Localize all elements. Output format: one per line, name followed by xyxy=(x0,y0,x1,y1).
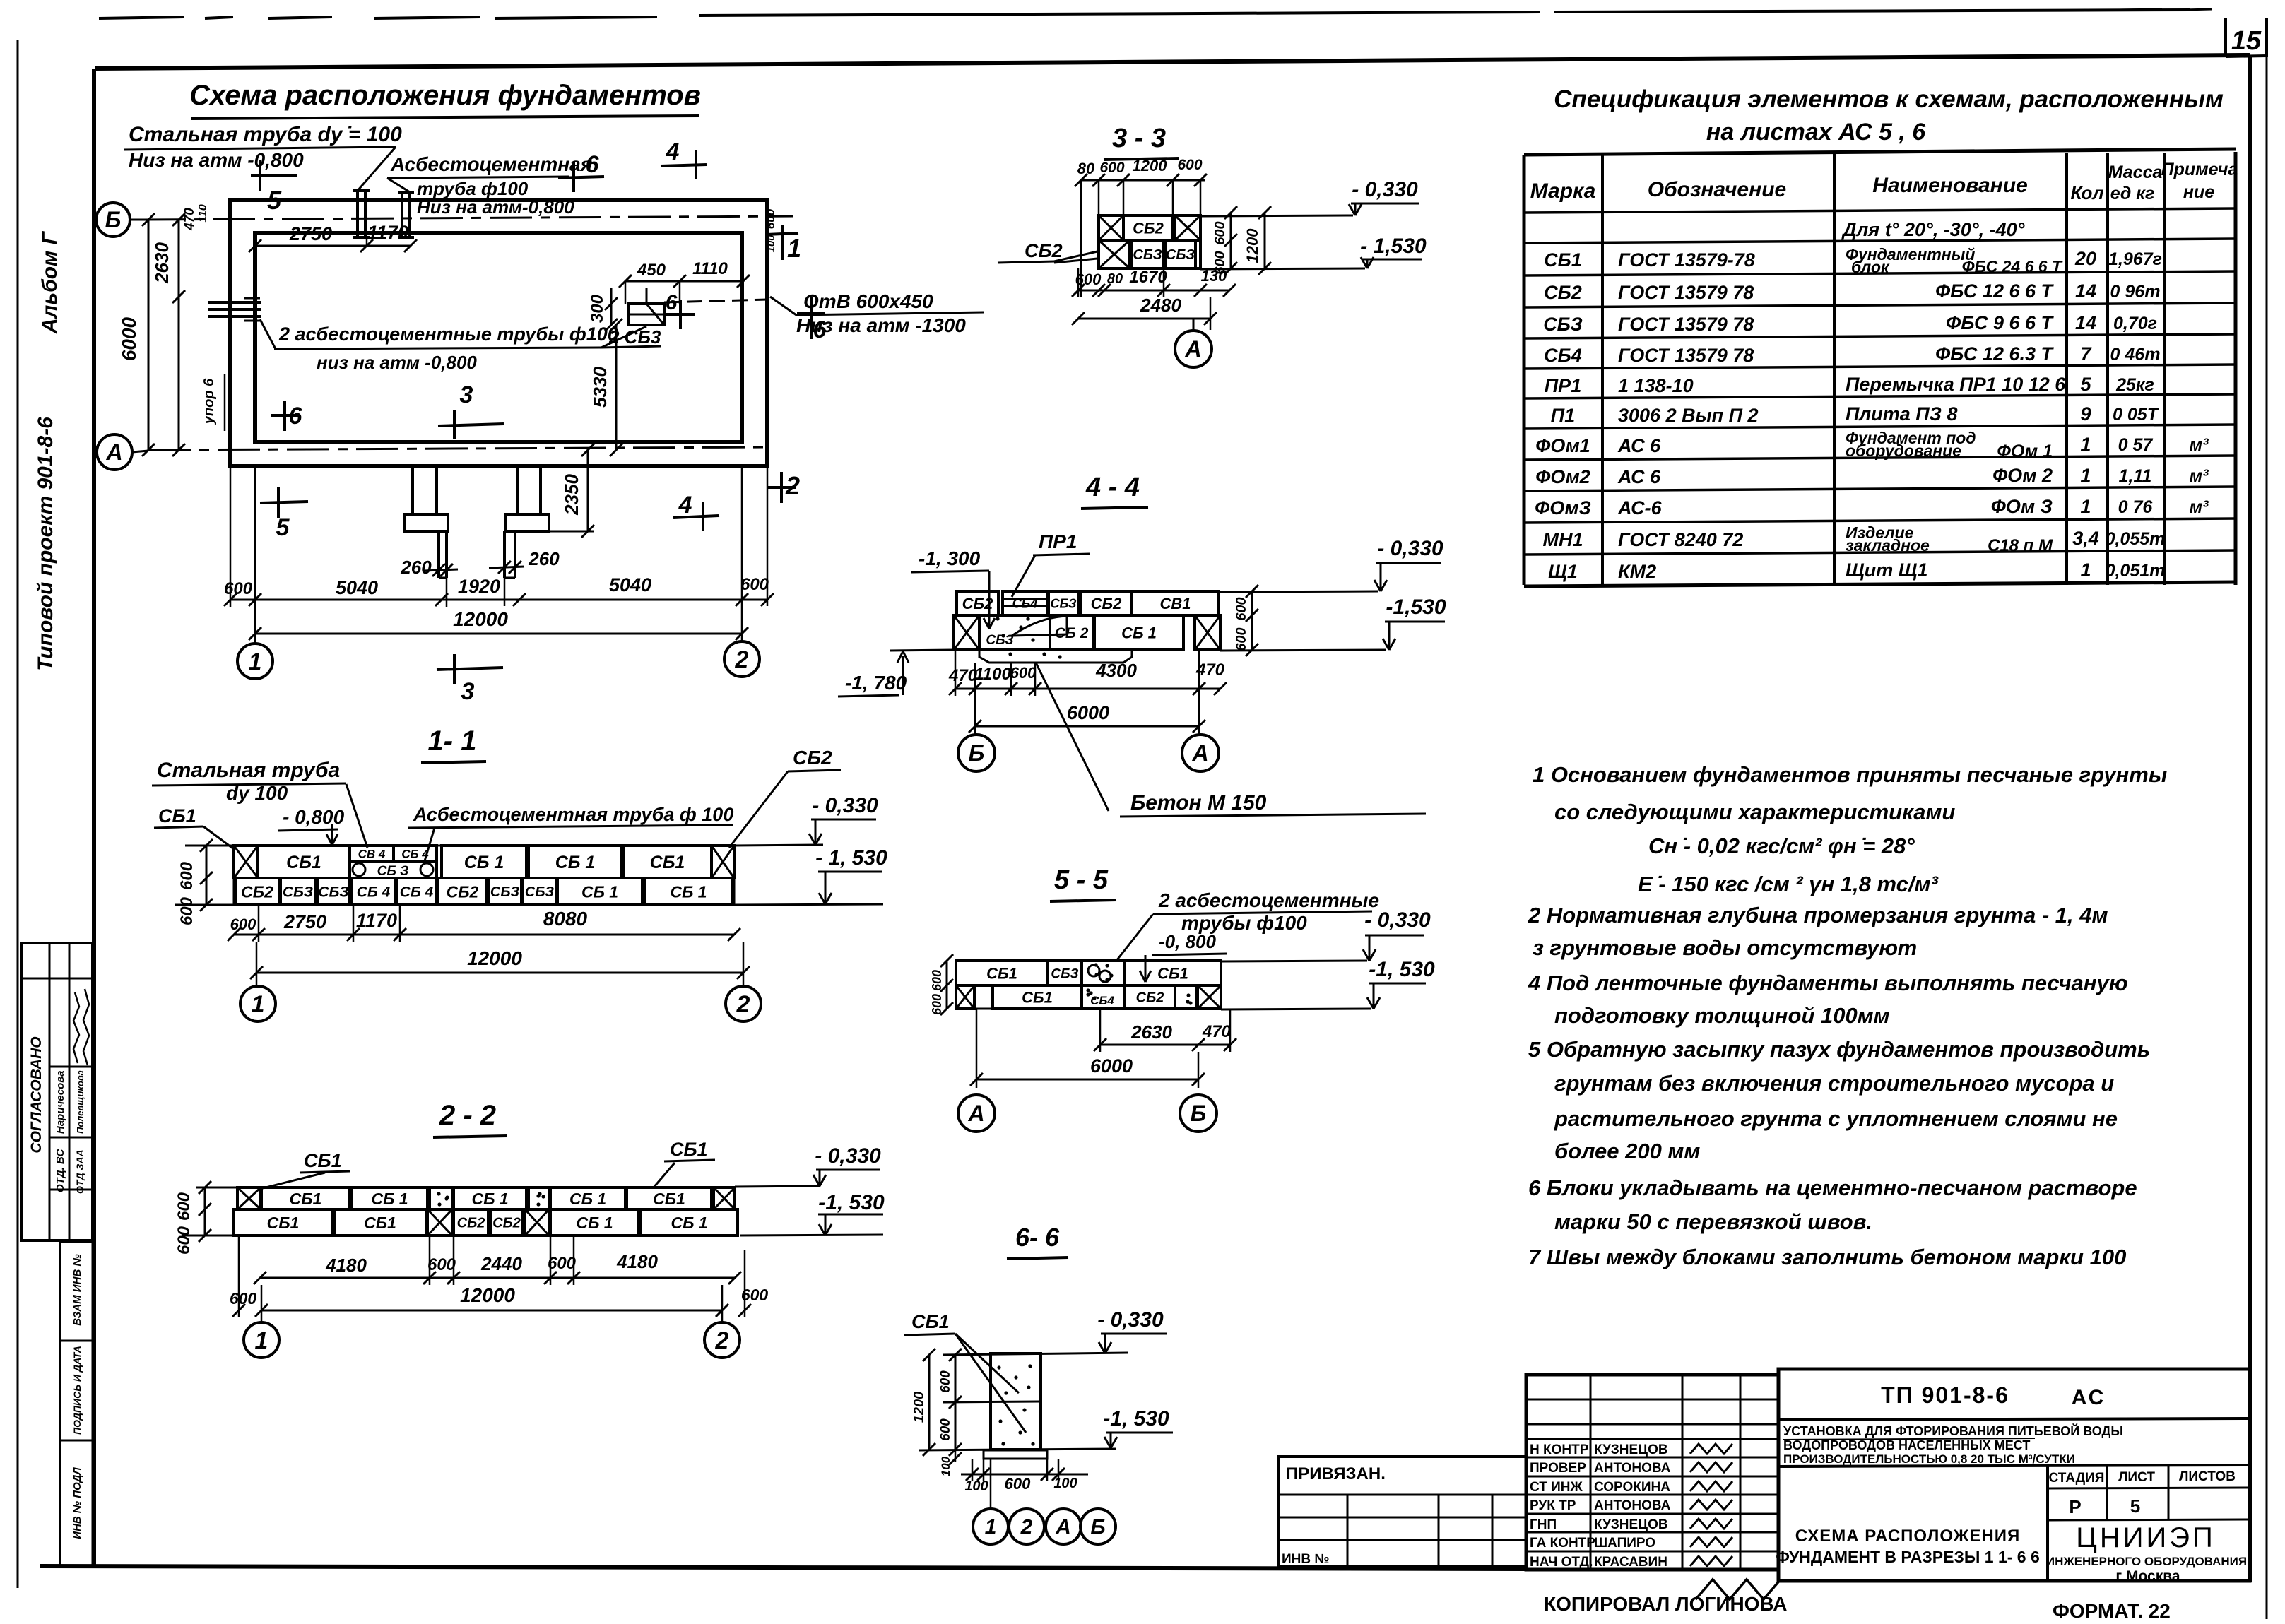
svg-text:Б: Б xyxy=(1090,1516,1105,1539)
svg-text:ГОСТ 13579 78: ГОСТ 13579 78 xyxy=(1618,314,1754,335)
svg-text:130: 130 xyxy=(1201,267,1227,285)
svg-text:600: 600 xyxy=(427,1255,456,1274)
svg-text:15: 15 xyxy=(2231,26,2262,56)
svg-text:СБ1: СБ1 xyxy=(1157,964,1188,982)
svg-text:ОтВ 600х450: ОтВ 600х450 xyxy=(803,290,933,312)
svg-text:СБ1: СБ1 xyxy=(653,1190,685,1208)
section 2-2: dim line 4180 600 2440 600 4180 xyxy=(260,1277,735,1279)
svg-text:Б: Б xyxy=(1191,1101,1207,1126)
svg-text:4 Под ленточные фундаменты: 4 Под ленточные фундаменты выполнять пес… xyxy=(1528,971,2128,995)
svg-text:600: 600 xyxy=(230,915,256,933)
plan: axis А line xyxy=(148,447,767,450)
svg-text:- 0,330: - 0,330 xyxy=(812,794,878,817)
svg-text:КУЗНЕЦОВ: КУЗНЕЦОВ xyxy=(1594,1517,1668,1532)
svg-text:600: 600 xyxy=(938,1370,953,1393)
svg-text:ЛИСТ: ЛИСТ xyxy=(2118,1470,2155,1485)
svg-text:оборудование: оборудование xyxy=(1846,441,1961,460)
section 2-2: band top row xyxy=(237,1187,261,1209)
plan: grid circle 1 xyxy=(237,644,273,679)
svg-text:ОТД ЗАА: ОТД ЗАА xyxy=(74,1149,85,1194)
svg-text:Схема расположения фундаментов: Схема расположения фундаментов xyxy=(189,80,701,111)
svg-text:СБ2: СБ2 xyxy=(962,595,993,612)
svg-text:1200: 1200 xyxy=(1244,228,1261,263)
svg-text:м³: м³ xyxy=(2190,466,2209,486)
svg-text:600: 600 xyxy=(1234,627,1249,651)
section 6-6: left dims 1200 600 600 100 xyxy=(955,1355,957,1450)
plan: 2 asbestos pipes crossing left wall xyxy=(208,301,261,304)
svg-text:0 76: 0 76 xyxy=(2118,497,2154,517)
svg-text:470: 470 xyxy=(182,208,197,231)
plan: dim 300 at opening xyxy=(610,288,613,325)
svg-text:более 200 мм: более 200 мм xyxy=(1554,1139,1700,1163)
section 4-4: axis circle А xyxy=(1182,735,1219,771)
svg-text:СБ 1: СБ 1 xyxy=(670,882,707,901)
section 4-4: band top row xyxy=(957,591,998,615)
svg-text:СБ 1: СБ 1 xyxy=(464,853,504,872)
svg-text:СБ 1: СБ 1 xyxy=(581,882,618,901)
svg-text:С18 п М: С18 п М xyxy=(1988,536,2053,555)
section 6-6: column xyxy=(991,1353,1041,1450)
svg-text:ВЗАМ ИНВ №: ВЗАМ ИНВ № xyxy=(71,1254,83,1325)
plan: section mark 5 (bottom-left) xyxy=(260,502,308,503)
svg-text:ФОм 1: ФОм 1 xyxy=(1997,441,2053,461)
svg-text:Кол: Кол xyxy=(2070,182,2103,203)
svg-text:600: 600 xyxy=(1099,160,1124,176)
svg-text:СБ 1: СБ 1 xyxy=(371,1190,408,1208)
svg-text:СТ ИНЖ: СТ ИНЖ xyxy=(1530,1480,1583,1495)
svg-text:СБ2: СБ2 xyxy=(1136,990,1164,1006)
section 1-1: grid circle 1 xyxy=(240,986,276,1021)
svg-text:СБ 1: СБ 1 xyxy=(671,1214,707,1232)
plan: left footing pad xyxy=(405,514,448,531)
svg-text:- 1,530: - 1,530 xyxy=(1360,235,1427,258)
svg-text:2 асбестоцементные трубы ф100: 2 асбестоцементные трубы ф100 xyxy=(278,324,618,345)
svg-text:1: 1 xyxy=(2080,465,2091,486)
section 5-5: dim 6000 xyxy=(976,1079,1198,1081)
svg-text:-1,530: -1,530 xyxy=(1386,595,1446,619)
plan: section mark 3 (bottom) xyxy=(437,668,503,670)
svg-text:ПРОВЕР: ПРОВЕР xyxy=(1530,1461,1586,1476)
svg-text:0 05Т: 0 05Т xyxy=(2113,405,2160,425)
section 6-6: sand pad xyxy=(984,1450,1047,1459)
svg-text:Стальная труба: Стальная труба xyxy=(157,759,340,782)
svg-text:-1, 780: -1, 780 xyxy=(845,672,907,694)
svg-text:4: 4 xyxy=(678,492,692,518)
svg-text:СБ1: СБ1 xyxy=(158,805,196,826)
svg-text:2630: 2630 xyxy=(1130,1021,1172,1043)
svg-text:4: 4 xyxy=(666,138,680,165)
svg-text:260: 260 xyxy=(400,557,432,578)
svg-text:АНТОНОВА: АНТОНОВА xyxy=(1594,1498,1671,1513)
section 4-4: dims 470 1100 600 4300 470 xyxy=(955,688,1220,690)
section 4-4: lintel curve xyxy=(1012,616,1067,636)
svg-text:9: 9 xyxy=(2080,403,2091,425)
sheet: top trim dashes xyxy=(99,17,184,18)
svg-text:СБ2: СБ2 xyxy=(793,747,832,769)
plan: pad bottom line to 2350 dim xyxy=(549,531,594,533)
svg-text:Н КОНТР: Н КОНТР xyxy=(1530,1442,1589,1457)
svg-text:- 0,330: - 0,330 xyxy=(1377,537,1443,560)
section 5-5: band bottom row xyxy=(956,985,974,1009)
svg-text:1 Основанием фундаментов при: 1 Основанием фундаментов приняты песчаны… xyxy=(1533,762,2167,787)
svg-text:Б: Б xyxy=(105,207,122,232)
svg-text:РУК ТР: РУК ТР xyxy=(1530,1498,1576,1513)
svg-text:подготовку толщиной 100мм: подготовку толщиной 100мм xyxy=(1554,1003,1890,1028)
margin stamp: signatures xyxy=(73,992,79,1063)
svg-text:СБ2: СБ2 xyxy=(1544,282,1582,303)
svg-text:АС 6: АС 6 xyxy=(1617,435,1661,456)
plan: section mark 4 (bottom-right) xyxy=(673,516,719,518)
svg-text:600: 600 xyxy=(930,994,944,1015)
svg-text:1: 1 xyxy=(255,1327,268,1354)
svg-text:5: 5 xyxy=(267,186,282,215)
spec table grid xyxy=(1523,155,1526,585)
svg-text:0,055т: 0,055т xyxy=(2106,529,2166,549)
svg-text:на листах АС 5 , 6: на листах АС 5 , 6 xyxy=(1706,119,1926,146)
svg-text:ФОм 2: ФОм 2 xyxy=(1992,465,2053,486)
section 1-1: bottom face extension xyxy=(734,904,883,905)
svg-text:600: 600 xyxy=(548,1254,577,1273)
svg-text:1- 1: 1- 1 xyxy=(428,725,477,757)
plan: left vertical dim 6000 xyxy=(148,220,150,450)
svg-text:СБЗ: СБЗ xyxy=(1051,966,1078,981)
privyazan box xyxy=(1279,1457,1526,1567)
plan: dim 450 1110 over opening xyxy=(625,280,743,283)
svg-text:ЦНИИЭП: ЦНИИЭП xyxy=(2076,1522,2215,1553)
svg-text:ФБС 9 6 6 Т: ФБС 9 6 6 Т xyxy=(1946,312,2054,333)
svg-text:А: А xyxy=(1191,740,1208,766)
margin stamp: инв № подл xyxy=(60,1440,93,1566)
plan: asbestos pipe crossing top wall (right) xyxy=(401,191,403,239)
svg-text:ФБС 12 6.3 Т: ФБС 12 6.3 Т xyxy=(1935,343,2054,364)
plan: dim 2750 1170 (top wall) xyxy=(255,245,411,247)
svg-text:6000: 6000 xyxy=(1090,1055,1133,1077)
svg-text:600: 600 xyxy=(1010,664,1037,682)
svg-text:600: 600 xyxy=(1234,597,1249,620)
svg-text:2 СБ3: 2 СБ3 xyxy=(608,326,661,348)
svg-text:1: 1 xyxy=(2080,496,2091,517)
svg-text:КМ2: КМ2 xyxy=(1618,561,1656,582)
svg-text:ФБС 24 6 6 Т: ФБС 24 6 6 Т xyxy=(1962,257,2063,275)
section 2-2: dim line 12000 with 600 ends xyxy=(261,1310,722,1312)
svg-text:470: 470 xyxy=(1202,1022,1232,1041)
svg-text:2350: 2350 xyxy=(561,474,582,516)
plan: inner wall rectangle xyxy=(255,233,742,442)
svg-text:растительного грунта с упло: растительного грунта с уплотнением слоям… xyxy=(1554,1106,2118,1131)
plan: section mark 6 (inside left) xyxy=(283,401,286,431)
svg-text:грунтам без включения стр: грунтам без включения строительного мусо… xyxy=(1554,1071,2114,1096)
plan: right footing pad xyxy=(505,514,549,531)
svg-text:ТП 901-8-6: ТП 901-8-6 xyxy=(1881,1382,2009,1408)
svg-text:СБ1: СБ1 xyxy=(1544,249,1582,271)
section 5-5: band top row xyxy=(956,961,1048,985)
section 4-4: label Бетон М 150 xyxy=(1036,663,1109,811)
svg-text:100: 100 xyxy=(1053,1476,1077,1491)
svg-text:СБ 1: СБ 1 xyxy=(576,1214,613,1232)
svg-text:2440: 2440 xyxy=(480,1253,522,1274)
svg-text:2750: 2750 xyxy=(289,223,332,244)
plan: grid circle 2 xyxy=(724,641,760,677)
svg-text:0 46т: 0 46т xyxy=(2110,345,2161,364)
svg-text:со следующими характеристик: со следующими характеристиками xyxy=(1554,800,1955,824)
svg-text:Р: Р xyxy=(2069,1496,2081,1517)
title block: names table xyxy=(1526,1375,1778,1570)
section 4-4: axis circle Б xyxy=(958,735,995,771)
svg-text:600: 600 xyxy=(175,1192,194,1221)
svg-text:ФОмЗ: ФОмЗ xyxy=(1535,497,1591,518)
svg-text:6 Блоки укладывать на цемен: 6 Блоки укладывать на цементно-песчаном … xyxy=(1528,1175,2137,1200)
svg-text:600: 600 xyxy=(175,1226,194,1255)
svg-text:ФОм З: ФОм З xyxy=(1991,496,2053,517)
svg-text:м³: м³ xyxy=(2190,435,2209,455)
svg-text:1: 1 xyxy=(252,991,265,1018)
svg-text:СБ 4: СБ 4 xyxy=(401,848,429,861)
svg-text:СБ 4: СБ 4 xyxy=(357,884,391,901)
svg-text:2: 2 xyxy=(785,471,800,500)
title block: main box xyxy=(1778,1369,2250,1581)
svg-text:ИНВ №: ИНВ № xyxy=(1282,1552,1330,1567)
plan: section mark 5 (top) xyxy=(251,174,297,177)
svg-text:12000: 12000 xyxy=(467,947,522,969)
svg-text:470: 470 xyxy=(948,666,978,685)
svg-text:600: 600 xyxy=(177,861,196,890)
plan: dim 5330 vertical xyxy=(615,325,618,450)
svg-text:Примеча: Примеча xyxy=(2161,160,2238,179)
section 1-1: dim line 600 2750 1170 8080 xyxy=(234,934,734,936)
section 1-1: grid circle 2 xyxy=(726,986,761,1021)
svg-text:СБЗ: СБЗ xyxy=(283,884,314,901)
svg-text:блок: блок xyxy=(1851,258,1890,276)
svg-text:Перемычка ПР1 10 12 6: Перемычка ПР1 10 12 6 xyxy=(1846,374,2066,395)
svg-text:12000: 12000 xyxy=(460,1284,515,1306)
svg-text:100: 100 xyxy=(765,235,777,253)
svg-text:dy 100: dy 100 xyxy=(226,782,288,804)
svg-text:А: А xyxy=(1055,1516,1071,1539)
plan: outer wall rectangle xyxy=(230,200,767,466)
svg-text:1110: 1110 xyxy=(692,259,728,278)
svg-text:СБ1: СБ1 xyxy=(304,1150,342,1171)
section 4-4: concrete speckles xyxy=(986,622,989,626)
svg-text:Б: Б xyxy=(969,740,985,766)
svg-text:СОГЛАСОВАНО: СОГЛАСОВАНО xyxy=(28,1036,45,1153)
svg-text:СТАДИЯ: СТАДИЯ xyxy=(2049,1471,2105,1486)
svg-text:ШАПИРО: ШАПИРО xyxy=(1594,1536,1655,1551)
section 5-5: left vertical dims 600 600 xyxy=(946,961,948,1009)
svg-text:600: 600 xyxy=(938,1418,953,1441)
section 6-6: axis circles 1 2 А Б xyxy=(990,1459,992,1509)
svg-text:260: 260 xyxy=(528,548,560,569)
svg-text:АНТОНОВА: АНТОНОВА xyxy=(1594,1461,1671,1476)
svg-text:12000: 12000 xyxy=(453,608,508,630)
svg-text:Наричесова: Наричесова xyxy=(54,1071,66,1134)
svg-text:-1, 530: -1, 530 xyxy=(1103,1407,1169,1430)
svg-text:СБ1: СБ1 xyxy=(290,1190,322,1208)
svg-text:1,967г: 1,967г xyxy=(2108,249,2162,269)
svg-text:СБЗ: СБЗ xyxy=(1050,596,1077,610)
section 3-3: axis circle А xyxy=(1175,331,1212,367)
svg-text:1920: 1920 xyxy=(458,576,500,597)
svg-text:ФБС 12 6 6 Т: ФБС 12 6 6 Т xyxy=(1935,280,2054,302)
svg-text:2: 2 xyxy=(735,646,749,673)
svg-text:ПОДПИСЬ И ДАТА: ПОДПИСЬ И ДАТА xyxy=(71,1346,83,1435)
svg-text:НАЧ ОТД.: НАЧ ОТД. xyxy=(1530,1555,1593,1570)
svg-text:Щ1: Щ1 xyxy=(1548,561,1578,582)
svg-text:Стальная труба dy ̇= 100: Стальная труба dy ̇= 100 xyxy=(129,123,402,146)
svg-text:ПРОИЗВОДИТЕЛЬНОСТЬЮ 0,8 20 ТЫ: ПРОИЗВОДИТЕЛЬНОСТЬЮ 0,8 20 ТЫС М³/СУТКИ xyxy=(1783,1452,2075,1466)
svg-text:-0, 800: -0, 800 xyxy=(1159,931,1216,952)
section 3-3: bottom dims 600 80 1670 130 xyxy=(1078,290,1229,292)
svg-text:2: 2 xyxy=(1020,1516,1033,1539)
svg-text:25кг: 25кг xyxy=(2115,375,2154,395)
svg-text:600: 600 xyxy=(1005,1475,1031,1493)
svg-text:г Москва: г Москва xyxy=(2115,1568,2180,1584)
svg-text:Марка: Марка xyxy=(1530,179,1596,203)
svg-text:Плита ПЗ 8: Плита ПЗ 8 xyxy=(1846,403,1958,425)
svg-text:Масса: Масса xyxy=(2108,162,2163,182)
svg-text:- 0,330: - 0,330 xyxy=(1364,908,1431,932)
svg-text:КУЗНЕЦОВ: КУЗНЕЦОВ xyxy=(1594,1442,1668,1457)
svg-text:ГА КОНТР: ГА КОНТР xyxy=(1530,1536,1595,1551)
svg-text:ГОСТ 13579 78: ГОСТ 13579 78 xyxy=(1618,345,1754,366)
svg-text:А: А xyxy=(105,439,122,465)
svg-text:-1, 530: -1, 530 xyxy=(1369,958,1435,981)
svg-text:5 Обратную засыпку пазух: 5 Обратную засыпку пазух фундаментов про… xyxy=(1528,1037,2150,1062)
margin stamp: согласовано table xyxy=(22,943,93,1240)
plan: section mark 6 (right) xyxy=(810,297,813,339)
svg-text:Сн ̇- 0,02 кгс/см² φн ̇= 2: Сн ̇- 0,02 кгс/см² φн ̇= 28° xyxy=(1648,834,1915,858)
svg-text:0,70г: 0,70г xyxy=(2113,314,2157,333)
svg-text:600: 600 xyxy=(224,579,253,598)
svg-text:2: 2 xyxy=(736,991,750,1018)
svg-text:Бетон М 150: Бетон М 150 xyxy=(1130,791,1267,814)
section 4-4: dim 6000 xyxy=(975,725,1199,728)
page number box xyxy=(2224,18,2227,57)
svg-text:600: 600 xyxy=(740,575,769,594)
svg-text:1: 1 xyxy=(2080,434,2091,455)
svg-text:Полевщикова: Полевщикова xyxy=(75,1070,85,1134)
svg-text:600: 600 xyxy=(230,1289,257,1308)
svg-text:СВ1: СВ1 xyxy=(1159,595,1191,612)
svg-text:4 - 4: 4 - 4 xyxy=(1085,473,1140,502)
svg-text:100: 100 xyxy=(964,1478,988,1494)
section 2-2: band outline emphasis xyxy=(237,1187,735,1209)
svg-text:600: 600 xyxy=(764,208,777,229)
svg-text:СБ2: СБ2 xyxy=(492,1216,521,1231)
svg-text:6: 6 xyxy=(289,403,303,429)
svg-text:2630: 2630 xyxy=(151,242,172,284)
svg-text:80: 80 xyxy=(1077,160,1095,177)
plan: bottom dim line 600 5040 1920 5040 600 xyxy=(230,599,767,601)
svg-text:1: 1 xyxy=(787,234,801,263)
svg-text:1170: 1170 xyxy=(356,910,397,931)
section 4-4: right vertical dims 600 600 xyxy=(1251,591,1253,650)
section 3-3: right vertical dims 600 600 1200 xyxy=(1230,213,1232,268)
svg-text:СБ1: СБ1 xyxy=(650,853,685,872)
svg-text:УСТАНОВКА ДЛЯ ФТОРИРОВАНИЯ П: УСТАНОВКА ДЛЯ ФТОРИРОВАНИЯ ПИТЬЕВОЙ ВОДЫ xyxy=(1783,1423,2123,1438)
svg-text:1: 1 xyxy=(985,1516,997,1539)
sheet: paper edge left xyxy=(17,40,19,1588)
plan: section mark 3 (top) xyxy=(438,424,504,426)
svg-text:СБ1: СБ1 xyxy=(1022,988,1053,1006)
svg-text:-1, 530: -1, 530 xyxy=(818,1191,885,1214)
svg-text:3 - 3: 3 - 3 xyxy=(1112,124,1166,153)
svg-text:СБ2: СБ2 xyxy=(457,1216,485,1231)
svg-text:СБ2: СБ2 xyxy=(447,882,479,901)
svg-text:1670: 1670 xyxy=(1129,268,1167,287)
svg-text:ЛИСТОВ: ЛИСТОВ xyxy=(2179,1469,2236,1484)
svg-text:низ на атм -0,800: низ на атм -0,800 xyxy=(317,352,477,373)
svg-text:-1, 300: -1, 300 xyxy=(919,547,981,569)
section 5-5: dims 2630 470 xyxy=(1100,1044,1230,1046)
svg-text:Спецификация элементов к сх: Спецификация элементов к схемам, располо… xyxy=(1554,85,2224,113)
svg-text:СБЗ: СБЗ xyxy=(1133,247,1162,263)
section 3-3: band bottom row xyxy=(1099,240,1130,268)
section 3-3: dim 2480 xyxy=(1078,318,1210,320)
svg-text:6- 6: 6- 6 xyxy=(1015,1223,1060,1252)
svg-text:6000: 6000 xyxy=(118,316,140,361)
svg-text:600: 600 xyxy=(1177,157,1202,173)
plan: left pit below pad xyxy=(437,531,440,578)
svg-text:СБ 1: СБ 1 xyxy=(1121,624,1157,641)
svg-text:450: 450 xyxy=(637,261,666,280)
svg-text:1200: 1200 xyxy=(1133,157,1168,174)
svg-text:1: 1 xyxy=(2080,559,2091,581)
svg-text:ед кг: ед кг xyxy=(2110,184,2155,203)
svg-text:ПР1: ПР1 xyxy=(1039,531,1077,552)
svg-text:ИНВ № ПОДЛ: ИНВ № ПОДЛ xyxy=(71,1467,83,1539)
svg-text:м³: м³ xyxy=(2190,497,2209,517)
svg-text:СБ4: СБ4 xyxy=(1090,994,1114,1007)
svg-text:КРАСАВИН: КРАСАВИН xyxy=(1594,1555,1667,1570)
svg-text:ПР1: ПР1 xyxy=(1545,375,1581,396)
svg-text:Обозначение: Обозначение xyxy=(1648,178,1787,201)
svg-text:14: 14 xyxy=(2075,312,2096,333)
svg-text:П1: П1 xyxy=(1551,405,1575,426)
plan: right pit below pad xyxy=(503,531,506,578)
svg-text:600: 600 xyxy=(177,896,196,925)
section 3-3: top dims 80 600 1200 600 xyxy=(1081,179,1205,182)
svg-text:5330: 5330 xyxy=(589,367,610,408)
svg-text:СОРОКИНА: СОРОКИНА xyxy=(1594,1480,1670,1495)
svg-text:600: 600 xyxy=(1212,221,1228,244)
section 2-2: band bottom row xyxy=(234,1209,332,1235)
section 1-1: left face extensions xyxy=(185,845,234,847)
svg-text:0 57: 0 57 xyxy=(2118,435,2154,455)
svg-text:Альбом Г: Альбом Г xyxy=(38,230,61,334)
svg-text:ФУНДАМЕНТ В РАЗРЕЗЫ 1 1- 6 6: ФУНДАМЕНТ В РАЗРЕЗЫ 1 1- 6 6 xyxy=(1776,1548,2040,1566)
svg-text:2 Нормативная глубина проме: 2 Нормативная глубина промерзания грунта… xyxy=(1528,903,2108,927)
plan: bottom dim line 12000 xyxy=(255,633,742,635)
plan: section mark 1 (right top) xyxy=(767,233,798,235)
svg-text:5: 5 xyxy=(2130,1495,2140,1517)
section 1-1: dim line 12000 xyxy=(256,972,743,974)
title block: signature flourish xyxy=(1696,1579,1781,1599)
svg-text:СБ 1: СБ 1 xyxy=(569,1190,606,1208)
svg-text:СВ 4: СВ 4 xyxy=(358,848,386,861)
svg-text:4180: 4180 xyxy=(325,1255,367,1276)
plan: left column leg xyxy=(411,466,414,514)
svg-text:СБ1: СБ1 xyxy=(670,1139,708,1160)
svg-text:- 0,330: - 0,330 xyxy=(815,1144,881,1168)
svg-text:СБ 1: СБ 1 xyxy=(555,853,596,872)
svg-text:3: 3 xyxy=(460,381,473,408)
plan: section mark 6 (at 2сб3) xyxy=(679,300,682,329)
section 1-1: pipe circles and СБ3 row xyxy=(350,862,437,878)
svg-text:0 96т: 0 96т xyxy=(2110,282,2161,302)
svg-text:СБ4: СБ4 xyxy=(1544,345,1582,366)
svg-text:СБ1: СБ1 xyxy=(364,1214,396,1232)
svg-text:АС: АС xyxy=(2072,1386,2106,1409)
